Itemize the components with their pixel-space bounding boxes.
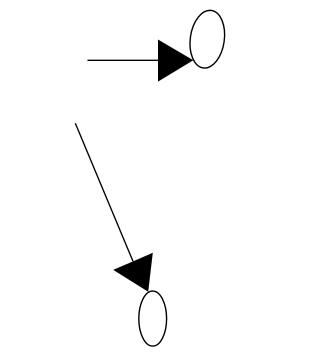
wire: bottom arrow shaft [75, 123, 133, 261]
arrowhead: bottom arrow [113, 253, 153, 292]
arrowhead: top arrow [158, 40, 193, 82]
node: top ellipse [186, 8, 228, 70]
wire: top arrow shaft [88, 59, 161, 61]
node: bottom ellipse [139, 291, 167, 346]
